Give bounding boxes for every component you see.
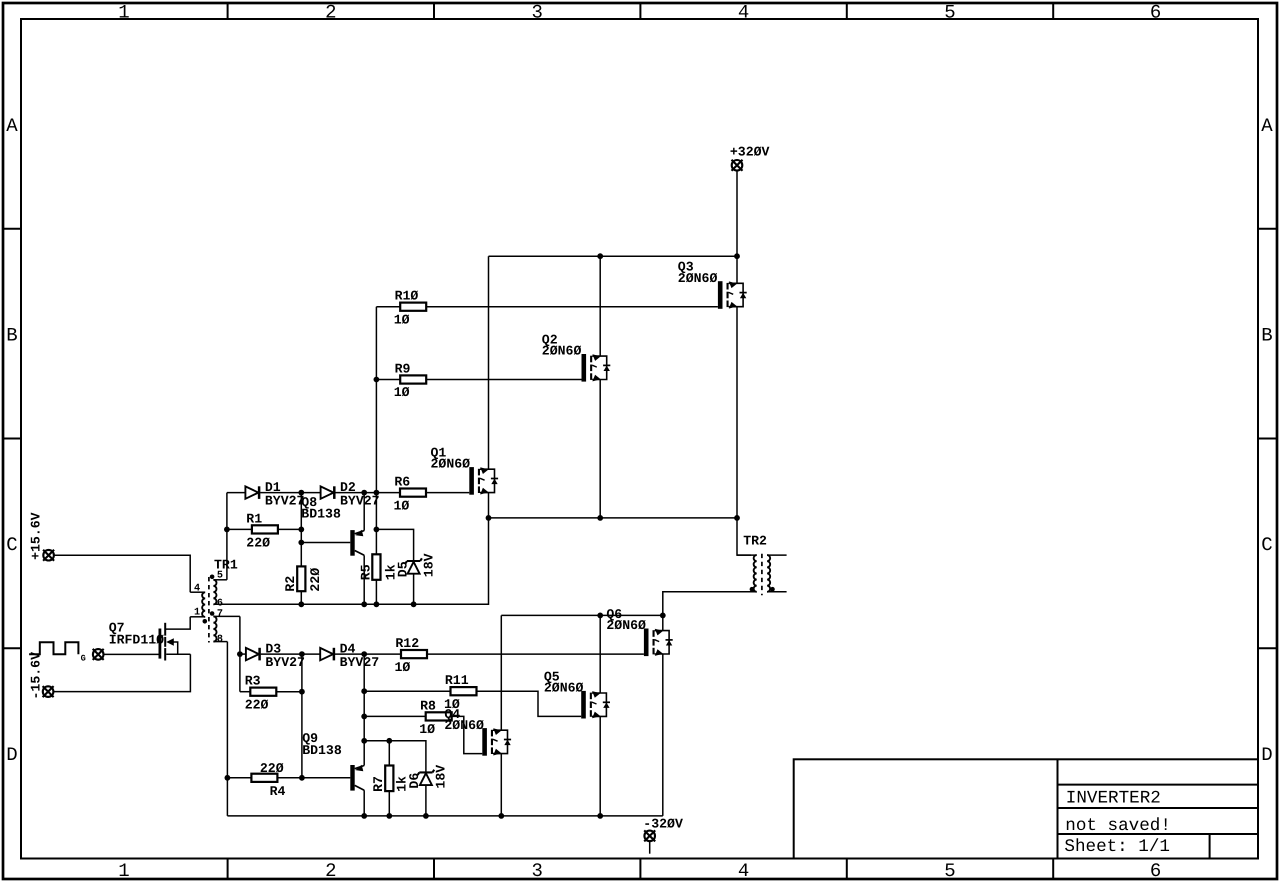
svg-text:4: 4: [738, 860, 749, 882]
svg-text:1Ø: 1Ø: [394, 312, 410, 327]
svg-text:2: 2: [325, 860, 336, 882]
junction Q6 feed / Q5 drain: [597, 613, 603, 619]
svg-text:R7: R7: [371, 776, 386, 792]
junction D2 cathode / Q8 emitter: [361, 490, 367, 496]
frame column tick 4|5 top: [846, 3, 848, 19]
svg-text:2ØN6Ø: 2ØN6Ø: [678, 271, 718, 286]
frame row tick C|D right: [1258, 647, 1277, 649]
svg-text:7: 7: [217, 609, 223, 620]
svg-text:2: 2: [325, 1, 336, 23]
TR1 pin 5 stub: [213, 579, 227, 581]
junction source rail / Q3: [734, 515, 740, 521]
resistor R5: [372, 554, 380, 580]
junction rail / Q8 collector: [361, 601, 367, 607]
wire D3 anode stub: [240, 653, 246, 655]
svg-text:1Ø: 1Ø: [394, 385, 410, 400]
junction rail / D5: [411, 601, 417, 607]
svg-text:R6: R6: [394, 475, 410, 490]
junction drain rail / Q2: [597, 253, 603, 259]
wire Q8 emitter: [363, 493, 365, 531]
svg-text:1: 1: [194, 607, 200, 618]
frame column tick 5|6 top: [1052, 3, 1054, 19]
wire D2 cathode to R6: [335, 492, 400, 494]
wire Q8 bus vertical: [300, 493, 302, 567]
wire Q4 source: [500, 754, 502, 816]
wire Q6 drain to TR2 primary bottom: [663, 592, 757, 616]
wire Q2 drain: [599, 256, 601, 356]
svg-text:6: 6: [1150, 860, 1161, 882]
svg-text:R2: R2: [283, 576, 298, 592]
junction Q9 bus / R8: [361, 714, 367, 720]
Q7 gate bar: [159, 629, 162, 659]
TR2 secondary bottom stub: [767, 591, 787, 593]
junction D1-D2 node: [298, 490, 304, 496]
junction pin8 drop / R4: [225, 775, 231, 781]
TR1 pin 4 stub: [190, 591, 204, 593]
TR1 left winding (pins 4-1): [202, 592, 205, 617]
frame column tick 3|4 bottom: [639, 859, 641, 880]
junction lower rail / D6: [423, 813, 429, 819]
title block row line 3: [1058, 833, 1259, 835]
transistor Q8: [350, 530, 364, 556]
wire R10 to Q3 gate: [426, 306, 718, 308]
svg-text:R1: R1: [246, 511, 262, 526]
svg-text:22Ø: 22Ø: [245, 698, 269, 713]
svg-text:+15.6V: +15.6V: [29, 512, 44, 560]
junction R4 / Q9 base: [299, 775, 305, 781]
wire D1 anode from pin5 riser: [227, 492, 246, 494]
wire R3 left: [240, 691, 250, 693]
svg-text:A: A: [1261, 115, 1273, 137]
MOSFET Q6: [644, 629, 673, 657]
svg-text:22Ø: 22Ø: [308, 568, 323, 592]
svg-text:B: B: [6, 324, 17, 346]
wire Q4 drain: [500, 615, 502, 730]
wire drain rail +320V: [489, 255, 738, 257]
wire Q9 bus vertical: [301, 654, 303, 778]
svg-text:-15.6V: -15.6V: [29, 652, 44, 700]
wire Q8 base: [301, 542, 350, 544]
junction R3 / Q9 bus: [299, 689, 305, 695]
wire R5 bottom: [375, 580, 377, 605]
junction gate bus / R9: [374, 377, 380, 383]
wire R4 left: [227, 777, 251, 779]
svg-text:1: 1: [118, 1, 129, 23]
frame row tick B|C right: [1258, 438, 1277, 440]
svg-text:C: C: [6, 534, 17, 556]
svg-text:22Ø: 22Ø: [246, 535, 270, 550]
wire R7 bottom: [388, 791, 390, 816]
svg-text:-32ØV: -32ØV: [643, 817, 683, 832]
svg-text:5: 5: [944, 860, 955, 882]
resistor R10: [400, 303, 426, 311]
supply symbol -320V: [644, 830, 655, 841]
svg-text:3: 3: [531, 860, 542, 882]
wire R11 left: [364, 690, 450, 692]
wire R3 drop from D3 anode: [239, 654, 241, 692]
wire Q6 drain: [662, 615, 664, 630]
svg-text:4: 4: [194, 584, 200, 595]
title block row line 2: [1058, 807, 1259, 809]
wire TR1 pin7 drop: [239, 616, 241, 654]
wire R11 to Q5 gate: [477, 691, 582, 716]
TR2 primary top stub: [737, 554, 757, 556]
junction R7 top: [386, 738, 392, 744]
junction Q9 bus / R7 branch: [361, 738, 367, 744]
junction lower rail / R7: [386, 813, 392, 819]
wire R10 left: [376, 306, 400, 308]
zener D5: [405, 558, 422, 573]
TR1 phase dot pin5: [210, 575, 215, 580]
wire D1 cathode to D2 anode: [260, 492, 320, 494]
svg-text:INVERTER2: INVERTER2: [1066, 789, 1161, 809]
svg-text:D: D: [6, 744, 17, 766]
wire Q8 collector: [363, 555, 365, 604]
TR2 phase dot primary: [750, 587, 755, 592]
title block row line 1: [1058, 784, 1259, 786]
wire Q9 collector: [363, 790, 365, 816]
junction Q6 feed / TR2: [660, 613, 666, 619]
TR1 phase dot pin7: [210, 611, 215, 616]
svg-text:BYV27: BYV27: [265, 494, 305, 509]
TR1 pin 1 stub: [190, 616, 204, 618]
svg-text:+32ØV: +32ØV: [730, 144, 770, 159]
frame row tick C|D left: [3, 647, 21, 649]
svg-text:B: B: [1261, 324, 1272, 346]
wire R2 bottom: [300, 591, 302, 604]
resistor R2: [297, 566, 305, 591]
svg-text:2ØN6Ø: 2ØN6Ø: [444, 718, 484, 733]
TR1 right winding (pins 7-8): [213, 616, 216, 641]
svg-text:A: A: [6, 115, 18, 137]
junction R1 / Q8 bus: [298, 527, 304, 533]
svg-text:G: G: [81, 654, 86, 664]
MOSFET Q5: [581, 691, 610, 719]
wire D3 cathode to D4 anode: [261, 653, 321, 655]
svg-text:BYV27: BYV27: [340, 494, 380, 509]
wire R1 left: [227, 528, 252, 530]
svg-text:6: 6: [1150, 1, 1161, 23]
frame row tick B|C left: [3, 438, 21, 440]
wire G to Q7 gate: [103, 653, 158, 655]
resistor R4: [251, 774, 277, 782]
zener D6: [418, 770, 435, 785]
wire Q3 source to TR2: [737, 307, 751, 555]
wire R3 right: [276, 691, 302, 693]
junction D3 anode: [237, 651, 243, 657]
junction D3-D4 node: [299, 651, 305, 657]
wire Q9 emitter: [363, 654, 365, 765]
resistor R7: [385, 766, 393, 792]
frame row tick A|B left: [3, 228, 21, 230]
MOSFET Q3: [718, 281, 747, 309]
Q7 bulk hook: [170, 642, 178, 654]
svg-text:6: 6: [217, 598, 223, 609]
wire Q6 source: [662, 654, 664, 816]
title block divider vertical: [1057, 759, 1059, 858]
TR1 pin 8 stub: [213, 641, 227, 643]
resistor R11: [451, 687, 477, 695]
wire D5 bottom: [413, 574, 415, 605]
svg-text:2ØN6Ø: 2ØN6Ø: [431, 457, 471, 472]
wire +320V to drain rail: [736, 171, 738, 257]
Q7 bulk arrow: [166, 638, 174, 646]
wire upper driver rail: [213, 518, 488, 604]
MOSFET Q2: [582, 354, 611, 382]
title block outline: [794, 759, 1258, 858]
title block sheet cell divider: [1209, 834, 1211, 859]
TR2 primary winding: [754, 555, 757, 592]
wire R1 right: [278, 528, 301, 530]
svg-text:1Ø: 1Ø: [419, 722, 435, 737]
junction pin5 riser / R1: [224, 527, 230, 533]
supply symbol +15.6V: [43, 550, 54, 561]
wire source rail (upper bridge): [489, 517, 738, 519]
resistor R9: [400, 375, 426, 383]
wire R4 right / Q9 base: [277, 777, 350, 779]
wire R9 left: [376, 379, 400, 381]
svg-text:5: 5: [217, 571, 223, 582]
svg-text:22Ø: 22Ø: [260, 761, 284, 776]
svg-text:5: 5: [944, 1, 955, 23]
wire Q5 drain: [599, 615, 601, 693]
svg-text:R8: R8: [420, 698, 436, 713]
svg-text:R3: R3: [245, 674, 261, 689]
wire Q6 drain feed: [501, 614, 663, 616]
svg-text:BD138: BD138: [302, 743, 342, 758]
wire R7/D6 branch: [364, 741, 426, 773]
Q7 channel dashes: [164, 623, 166, 636]
diode D1: [245, 486, 259, 499]
svg-text:BYV27: BYV27: [340, 655, 380, 670]
junction rail / R2: [298, 601, 304, 607]
resistor R3: [250, 688, 276, 696]
TR2 secondary top stub: [767, 554, 787, 556]
Q7 drain to TR1 pin 1: [165, 617, 190, 629]
wire D4 cathode to R12: [335, 653, 401, 655]
wire D5 branch: [376, 529, 413, 561]
frame column tick 5|6 bottom: [1052, 859, 1054, 880]
TR1 right winding (pins 5-6): [213, 580, 216, 605]
transistor Q9: [350, 765, 364, 791]
frame column tick 3|4 top: [639, 3, 641, 19]
resistor R1: [252, 525, 278, 533]
svg-text:BYV27: BYV27: [265, 655, 305, 670]
svg-text:R12: R12: [395, 636, 419, 651]
wire R7 top: [388, 741, 390, 766]
svg-text:1Ø: 1Ø: [395, 660, 411, 675]
svg-text:R11: R11: [445, 673, 469, 688]
svg-text:2ØN6Ø: 2ØN6Ø: [606, 618, 646, 633]
svg-text:D5: D5: [395, 561, 410, 577]
frame column tick 2|3 top: [433, 3, 435, 19]
svg-text:R4: R4: [270, 784, 286, 799]
frame column tick 1|2 bottom: [227, 859, 229, 880]
svg-text:18V: 18V: [421, 553, 436, 577]
junction lower rail / Q4: [498, 813, 504, 819]
wire D6 bottom: [425, 785, 427, 816]
wire TR1 pin8 drop: [226, 642, 228, 816]
wire -320V pin stub: [649, 841, 651, 854]
Q7 source line: [166, 653, 190, 655]
resistor R8: [426, 712, 452, 720]
svg-text:D: D: [1261, 744, 1272, 766]
svg-text:C: C: [1261, 534, 1272, 556]
wire -15.6V to Q7 source return: [53, 654, 190, 691]
diode D3: [246, 648, 260, 661]
junction drain rail / +320V: [734, 253, 740, 259]
wire +15.6V to TR1 pin 4: [54, 555, 190, 592]
frame row tick A|B right: [1258, 228, 1277, 230]
square wave annotation: [29, 642, 78, 654]
svg-text:R9: R9: [395, 362, 411, 377]
svg-text:D6: D6: [407, 773, 422, 789]
svg-text:1Ø: 1Ø: [394, 498, 410, 513]
TR1 phase dot left: [203, 619, 208, 624]
svg-text:R1Ø: R1Ø: [395, 289, 419, 304]
frame column tick 1|2 top: [227, 3, 229, 19]
svg-text:2ØN6Ø: 2ØN6Ø: [544, 681, 584, 696]
wire R6 to Q1 gate: [426, 492, 469, 494]
svg-text:1: 1: [118, 860, 129, 882]
svg-text:2ØN6Ø: 2ØN6Ø: [542, 344, 582, 359]
wire Q5 source: [599, 716, 601, 816]
junction lower rail / Q9 collector: [361, 813, 367, 819]
svg-text:R5: R5: [359, 564, 374, 580]
wire R8 left: [364, 715, 426, 717]
TR2 secondary winding: [767, 555, 770, 592]
svg-text:8: 8: [217, 635, 223, 646]
svg-text:Sheet: 1/1: Sheet: 1/1: [1064, 837, 1170, 857]
MOSFET Q1: [469, 467, 498, 495]
junction D4 cathode / Q9 bus: [361, 651, 367, 657]
supply symbol +320V: [732, 160, 743, 171]
TR1 core: [208, 577, 210, 643]
junction source rail / Q1: [486, 515, 492, 521]
svg-text:4: 4: [738, 1, 749, 23]
MOSFET Q4: [482, 728, 511, 756]
wire R12 to Q6 gate: [427, 653, 644, 655]
svg-text:TR2: TR2: [743, 534, 767, 549]
wire gate bus vertical: [375, 307, 377, 555]
TR2 phase dot secondary: [770, 587, 775, 592]
svg-text:not saved!: not saved!: [1065, 816, 1171, 836]
diode D4: [320, 648, 334, 661]
frame column tick 2|3 bottom: [433, 859, 435, 880]
junction lower rail / Q5: [597, 813, 603, 819]
wire Q1 source: [488, 493, 490, 518]
TR1 pin 7 stub: [213, 615, 240, 617]
junction gate bus / R6: [374, 490, 380, 496]
supply symbol -15.6V: [43, 686, 54, 697]
svg-text:BD138: BD138: [301, 507, 341, 522]
wire Q2 source: [599, 380, 601, 518]
resistor R6: [400, 489, 426, 497]
supply symbol G: [93, 649, 104, 660]
junction rail / R5: [374, 601, 380, 607]
wire R8 to Q4 gate: [452, 716, 483, 753]
svg-text:3: 3: [531, 1, 542, 23]
junction Q8 base: [298, 540, 304, 546]
diode D2: [321, 486, 335, 499]
wire pin5 riser: [226, 493, 228, 580]
svg-text:IRFD11Ø: IRFD11Ø: [109, 632, 164, 647]
wire lower rail: [227, 815, 662, 817]
svg-text:18V: 18V: [434, 765, 449, 789]
junction source rail / Q2: [597, 515, 603, 521]
junction gate bus / D5 branch: [374, 527, 380, 533]
wire Q3 drain: [736, 256, 738, 283]
wire Q1 drain: [488, 256, 490, 469]
junction Q9 bus / R11: [361, 688, 367, 694]
TR2 core: [761, 554, 763, 596]
wire R9 to Q2 gate: [426, 379, 581, 381]
frame column tick 4|5 bottom: [846, 859, 848, 880]
resistor R12: [401, 650, 427, 658]
